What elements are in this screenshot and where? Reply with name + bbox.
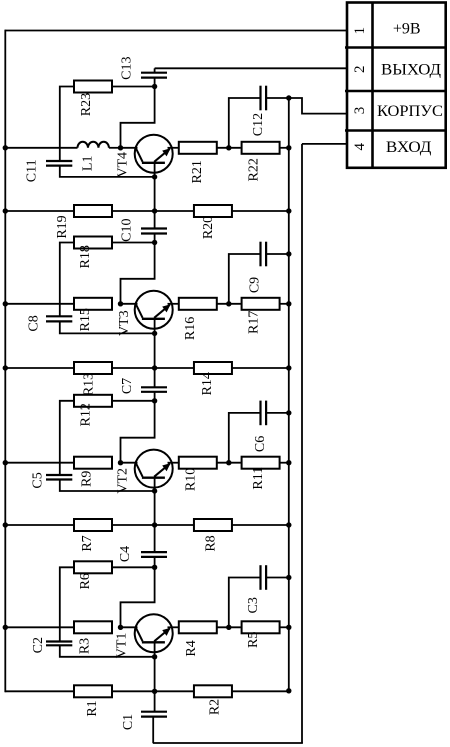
wire collector row left — [5, 462, 74, 464]
node collector junction — [118, 460, 123, 465]
wire collector to transistor — [121, 462, 138, 464]
capacitor C6 — [259, 401, 261, 426]
connector X1 box — [345, 3, 446, 168]
wire collector to transistor — [121, 147, 138, 149]
svg-text:R4: R4 — [184, 640, 199, 656]
svg-text:ВЫХОД: ВЫХОД — [381, 62, 441, 79]
svg-text:R3: R3 — [78, 638, 93, 654]
svg-text:R11: R11 — [251, 467, 266, 490]
svg-text:R10: R10 — [183, 468, 198, 491]
svg-text:C2: C2 — [31, 637, 46, 653]
capacitor C11 — [46, 160, 72, 162]
svg-text:R2: R2 — [208, 699, 223, 715]
wire L1 left stub — [5, 147, 77, 149]
wire cap to fb node — [154, 392, 156, 401]
svg-text:1: 1 — [352, 27, 368, 35]
wire left cap to base — [60, 166, 155, 177]
node ground bus — [286, 145, 291, 150]
capacitor C12 — [259, 86, 261, 111]
svg-text:R16: R16 — [183, 317, 198, 340]
wire emitter to node — [217, 303, 241, 305]
wire bottom left — [5, 690, 74, 692]
resistor R5 — [242, 621, 280, 633]
wire left cap to base — [60, 645, 155, 657]
svg-text:ВХОД: ВХОД — [386, 139, 432, 156]
svg-text:C9: C9 — [248, 277, 263, 293]
wire emitter — [168, 147, 179, 149]
wire to ground bus — [280, 626, 289, 628]
svg-text:R8: R8 — [204, 535, 219, 551]
svg-text:R12: R12 — [79, 403, 94, 426]
wire C13 top lead — [154, 68, 156, 72]
resistor R20 — [194, 205, 232, 217]
wire emitter to node — [217, 462, 241, 464]
wire row mid — [112, 210, 193, 212]
wire fb row right — [112, 566, 155, 568]
wire fb row right — [112, 242, 155, 244]
wire left cap to base — [60, 480, 155, 492]
wire pin3 to ground bus — [289, 98, 347, 114]
wire C1 bottom lead — [152, 717, 154, 743]
node row mid — [152, 365, 157, 370]
svg-text:+9В: +9В — [393, 21, 421, 38]
resistor R2 — [194, 685, 232, 697]
wire row left — [5, 367, 74, 369]
svg-text:4: 4 — [352, 143, 368, 151]
svg-text:C5: C5 — [30, 472, 45, 488]
capacitor C10 — [141, 227, 167, 229]
wire C3 loop — [229, 578, 261, 628]
wire emitter to node — [217, 147, 241, 149]
wire base down to next row — [154, 333, 156, 368]
svg-text:C1: C1 — [121, 714, 136, 730]
svg-text:R18: R18 — [78, 245, 93, 268]
node emitter divider — [226, 625, 231, 630]
wire fb row left + down — [60, 567, 74, 641]
svg-text:R20: R20 — [201, 216, 216, 239]
wire to ground bus — [280, 147, 289, 149]
resistor R23 — [74, 81, 112, 93]
svg-text:C13: C13 — [119, 57, 134, 80]
wire cap to bus — [266, 97, 289, 99]
wire bottom mid — [112, 690, 193, 692]
svg-text:C7: C7 — [120, 378, 135, 394]
resistor R15 — [74, 298, 112, 310]
node base junction — [152, 654, 157, 659]
node left bus junctions — [3, 145, 8, 630]
wire collector to transistor — [121, 303, 138, 305]
node fb junction — [152, 565, 157, 570]
wire row right — [233, 210, 289, 212]
resistor R21 — [179, 142, 217, 154]
node cap bus — [286, 575, 291, 580]
wire pin2 output — [155, 67, 347, 69]
node fb junction — [152, 240, 157, 245]
resistor R7 — [74, 519, 112, 531]
svg-text:C3: C3 — [246, 597, 261, 613]
wire cap to fb node — [154, 557, 156, 567]
wire base down to next row — [154, 177, 156, 211]
transistor VT3 — [135, 291, 173, 333]
wire mid vertical — [154, 368, 156, 387]
wire row mid — [112, 367, 193, 369]
resistor R16 — [179, 298, 217, 310]
svg-text:C8: C8 — [27, 315, 42, 331]
svg-text:3: 3 — [352, 107, 368, 115]
wire top loop — [121, 243, 155, 304]
svg-text:VT2: VT2 — [115, 468, 130, 494]
wire base down to bottom row — [154, 657, 156, 692]
svg-text:R21: R21 — [190, 160, 205, 183]
capacitor C4 — [141, 551, 167, 553]
node ground bus — [286, 301, 291, 306]
svg-text:КОРПУС: КОРПУС — [377, 103, 443, 120]
svg-text:C4: C4 — [118, 546, 133, 562]
wire collector row left — [5, 303, 74, 305]
wire fb row left + down — [60, 87, 74, 162]
svg-text:R13: R13 — [82, 373, 97, 396]
node base junction — [152, 174, 157, 179]
capacitor C3 — [259, 565, 261, 590]
wire input line — [301, 144, 303, 743]
node emitter divider — [226, 145, 231, 150]
node ground bus — [286, 625, 291, 630]
wire fb row right — [112, 86, 155, 88]
wire emitter — [168, 303, 179, 305]
resistor R13 — [74, 362, 112, 374]
svg-text:VT1: VT1 — [114, 633, 129, 659]
resistor R11 — [242, 457, 280, 469]
resistor R18 — [74, 237, 112, 249]
resistor R3 — [74, 621, 112, 633]
svg-text:R7: R7 — [80, 535, 95, 551]
svg-text:VT4: VT4 — [116, 152, 131, 178]
node collector junction — [118, 625, 123, 630]
node cap bus — [286, 95, 291, 100]
svg-text:R14: R14 — [200, 372, 215, 395]
wire mid vertical — [154, 211, 156, 229]
svg-text:R23: R23 — [79, 93, 94, 116]
resistor R4 — [179, 621, 217, 633]
wire bottom right — [233, 690, 289, 692]
wire C12 loop — [229, 98, 261, 148]
resistor R1 — [74, 685, 112, 697]
wire left supply bus — [4, 30, 6, 693]
inductor L1 — [78, 142, 109, 148]
wire cap to bus — [266, 253, 289, 255]
svg-text:R19: R19 — [55, 215, 70, 238]
capacitor C8 — [46, 315, 72, 317]
wire C9 loop — [229, 254, 261, 304]
wire left cap to base — [60, 321, 155, 333]
wire to ground bus — [280, 303, 289, 305]
node collector junction — [118, 145, 123, 150]
wire cap to bus — [266, 412, 289, 414]
node emitter divider — [226, 301, 231, 306]
wire fb row left + down — [60, 243, 74, 317]
node cap bus — [286, 410, 291, 415]
wire top loop — [121, 567, 155, 627]
wire mid vertical — [154, 525, 156, 552]
node cap bus — [286, 251, 291, 256]
wire emitter — [168, 626, 179, 628]
resistor R6 — [74, 561, 112, 573]
node base junction — [152, 488, 157, 493]
node bottom mid — [152, 689, 157, 694]
transistor VT1 — [135, 614, 173, 656]
wire row right — [233, 524, 289, 526]
wire C6 loop — [229, 413, 261, 463]
node row right bus — [286, 522, 291, 527]
resistor R9 — [74, 457, 112, 469]
wire top loop — [121, 401, 155, 463]
wire ground bus — [288, 98, 290, 691]
wire collector row left — [5, 626, 74, 628]
svg-text:R22: R22 — [246, 158, 261, 181]
node row mid — [152, 522, 157, 527]
node row mid — [152, 208, 157, 213]
svg-text:L1: L1 — [80, 156, 95, 172]
svg-text:C6: C6 — [253, 436, 268, 452]
wire fb row left + down — [60, 401, 74, 475]
svg-text:R5: R5 — [246, 632, 261, 648]
wire pin4 input stub — [302, 143, 347, 145]
svg-text:R15: R15 — [78, 308, 93, 331]
wire row left — [5, 210, 74, 212]
wire row right — [233, 367, 289, 369]
node emitter divider — [226, 460, 231, 465]
capacitor C2 — [46, 640, 72, 642]
wire base down to next row — [154, 491, 156, 525]
wire cap to bus — [266, 577, 289, 579]
wire collector to transistor — [121, 626, 138, 628]
resistor R10 — [179, 457, 217, 469]
resistor R19 — [74, 205, 112, 217]
svg-text:2: 2 — [352, 65, 368, 73]
transistor VT4 — [135, 135, 173, 177]
node fb junction — [152, 84, 157, 89]
node fb junction — [152, 398, 157, 403]
svg-text:C11: C11 — [25, 159, 40, 182]
wire row mid — [112, 524, 193, 526]
resistor R8 — [194, 519, 232, 531]
node row right bus — [286, 208, 291, 213]
wire fb row right — [112, 400, 155, 402]
wire emitter to node — [217, 626, 241, 628]
capacitor C1 — [141, 711, 167, 713]
svg-text:R1: R1 — [85, 700, 100, 716]
wire +9V top — [5, 30, 347, 32]
wire C13 bottom lead — [154, 78, 156, 87]
wire emitter — [168, 462, 179, 464]
svg-text:C12: C12 — [251, 113, 266, 136]
wire cap to fb node — [154, 234, 156, 243]
svg-text:VT3: VT3 — [117, 310, 132, 336]
svg-text:R6: R6 — [78, 573, 93, 589]
wire top loop — [121, 87, 155, 148]
transistor VT2 — [135, 450, 173, 492]
wire C1 top lead — [154, 691, 156, 711]
svg-text:R9: R9 — [79, 471, 94, 487]
svg-text:C10: C10 — [119, 219, 134, 242]
wire row left — [5, 524, 74, 526]
resistor R14 — [194, 362, 232, 374]
node row right bus — [286, 365, 291, 370]
node base junction — [152, 331, 157, 336]
capacitor C7 — [141, 386, 167, 388]
capacitor C5 — [46, 474, 72, 476]
node ground bus — [286, 460, 291, 465]
wire input bottom — [153, 742, 303, 744]
resistor R17 — [242, 298, 280, 310]
node bottom bus end — [286, 688, 291, 693]
resistor R22 — [242, 142, 280, 154]
capacitor C13 — [141, 72, 167, 74]
wire to ground bus — [280, 462, 289, 464]
svg-text:R17: R17 — [247, 311, 262, 334]
capacitor C9 — [259, 242, 261, 267]
node collector junction — [118, 301, 123, 306]
resistor R12 — [74, 395, 112, 407]
